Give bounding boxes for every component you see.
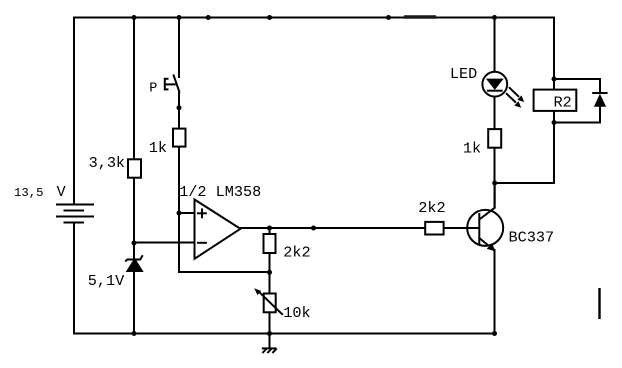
- junction dot top rail x494: [492, 15, 497, 20]
- op-amp U1 1/2 LM358 triangle: [195, 200, 241, 259]
- transistor Q1 BC337 body circle: [467, 210, 503, 246]
- resistor R 1k (LED): [488, 129, 501, 148]
- LED D2 triangle: [486, 79, 504, 90]
- wire diode branch top: [554, 79, 600, 94]
- wire base into circle: [466, 227, 479, 229]
- switch P blade: [173, 75, 179, 93]
- svg-text:R2: R2: [554, 94, 572, 112]
- junction dot op-amp + input: [177, 211, 182, 216]
- svg-text:BC337: BC337: [509, 229, 555, 247]
- resistor R 1k (left): [173, 129, 186, 147]
- potentiometer R 10k wiper arrow: [258, 291, 283, 315]
- LED D2 circle: [482, 72, 507, 97]
- diode D3 cathode bar: [592, 92, 607, 94]
- wire 1k to collector node: [494, 148, 496, 208]
- potentiometer arrowhead: [254, 288, 261, 295]
- wire bottom ground rail: [74, 333, 495, 335]
- wire LED cathode to 1k: [494, 97, 496, 130]
- op-amp + symbol: [197, 208, 207, 218]
- transistor emitter arrowhead: [487, 243, 496, 251]
- junction dot top rail x179: [177, 15, 182, 20]
- wire potentiometer to bottom rail: [269, 312, 271, 333]
- resistor R 2k2 (feedback): [264, 234, 276, 253]
- wire 3,3k to zener junction: [133, 178, 135, 260]
- junction dot relay bottom: [552, 120, 557, 125]
- transistor collector diagonal: [479, 207, 495, 219]
- svg-text:1k: 1k: [149, 139, 167, 157]
- LED light arrow 2 head: [514, 101, 521, 108]
- junction dot bottom rail ground: [267, 331, 272, 336]
- svg-text:V: V: [57, 184, 66, 201]
- LED light arrow 1: [509, 87, 519, 97]
- junction dot collector node: [492, 181, 497, 186]
- wire relay branch from top rail corner: [553, 18, 555, 91]
- wire base resistor to transistor: [444, 227, 467, 229]
- ground symbol: [262, 334, 277, 354]
- relay R2 coil box: [534, 90, 577, 111]
- transistor emitter diagonal: [479, 238, 488, 246]
- svg-text:P: P: [149, 81, 157, 96]
- wire op-amp output: [240, 227, 426, 229]
- svg-text:LED: LED: [450, 65, 477, 83]
- wire emitter down to bottom rail: [494, 249, 496, 335]
- wire switch to 1k resistor: [178, 92, 180, 129]
- diode D3 triangle: [594, 94, 606, 107]
- wire top rail thick overlap segment: [404, 15, 436, 18]
- junction dot feedback node: [267, 270, 272, 275]
- wire feedback junction to potentiometer: [269, 272, 271, 294]
- junction dot relay top: [552, 77, 557, 82]
- wire - input from zener junction: [134, 242, 195, 244]
- svg-text:2k2: 2k2: [283, 244, 310, 262]
- transistor base bar: [478, 213, 480, 244]
- wire left vertical lower (battery -): [73, 223, 75, 335]
- junction dot bottom rail x134: [132, 331, 137, 336]
- svg-text:3,3k: 3,3k: [89, 154, 125, 172]
- potentiometer R 10k body: [264, 294, 276, 313]
- junction dot top rail x388: [386, 15, 391, 20]
- wire 2k2 to feedback junction: [269, 253, 271, 272]
- wire zener anode to bottom rail: [133, 271, 135, 335]
- battery B1 13,5V plates: [56, 205, 94, 223]
- wire LED branch from top rail: [494, 17, 496, 73]
- wire left vertical upper (battery +): [73, 17, 75, 205]
- junction dot top rail x269: [267, 15, 272, 20]
- wire 3,3k branch upper: [133, 17, 135, 160]
- junction dot output mid: [311, 226, 316, 231]
- junction dot below switch: [177, 105, 182, 110]
- wire collector up to node: [494, 183, 496, 208]
- svg-text:1k: 1k: [463, 139, 481, 157]
- wire 1k to op-amp + input node: [178, 147, 180, 213]
- junction dot top rail x134: [132, 15, 137, 20]
- LED light arrow 2: [506, 93, 516, 102]
- wire + input node down and right to feedback junction: [179, 213, 270, 272]
- svg-text:2k2: 2k2: [418, 199, 445, 217]
- LED D2 cathode bar: [487, 90, 503, 92]
- wire relay to collector node horizontal: [494, 111, 554, 183]
- LED light arrow 1 head: [517, 95, 524, 102]
- wire output to 2k2 feedback resistor: [269, 228, 271, 234]
- wire + input stub: [179, 212, 195, 214]
- wire diode branch bottom: [554, 106, 600, 123]
- junction dot bottom rail emitter: [492, 331, 497, 336]
- wire switch branch from top rail: [178, 17, 180, 79]
- junction dot top rail x208: [206, 15, 211, 20]
- switch P actuator bracket: [165, 78, 176, 91]
- op-amp - symbol: [197, 242, 207, 244]
- svg-text:13,5: 13,5: [14, 186, 44, 200]
- svg-text:10k: 10k: [283, 304, 310, 322]
- junction dot output at 2k2: [267, 226, 272, 231]
- zener diode D1 5,1V triangle: [128, 260, 142, 271]
- zener diode D1 5,1V cathode bar: [125, 255, 142, 261]
- resistor R 3,3k: [128, 159, 141, 177]
- resistor R 2k2 (base): [425, 222, 443, 235]
- junction dot zener - input node: [132, 241, 137, 246]
- stray vertical mark right edge: [598, 288, 600, 319]
- svg-text:5,1V: 5,1V: [88, 272, 125, 290]
- svg-text:1/2 LM358: 1/2 LM358: [179, 183, 261, 201]
- wire top supply rail: [74, 17, 555, 19]
